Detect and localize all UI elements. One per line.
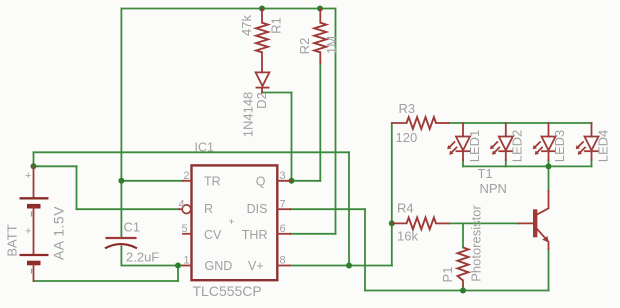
- svg-text:47k: 47k: [239, 15, 254, 36]
- svg-text:THR: THR: [242, 228, 268, 242]
- svg-text:IC1: IC1: [195, 141, 215, 155]
- svg-text:LED2: LED2: [509, 130, 524, 163]
- pin 1 stub GND: [183, 265, 192, 267]
- svg-text:C1: C1: [124, 220, 141, 235]
- pin 3 stub Q: [277, 180, 291, 182]
- wire: reset net to pin 4: [77, 208, 180, 210]
- node: junction battery plus: [31, 163, 37, 169]
- wire: R2 bottom to Q dot: [292, 180, 321, 182]
- wire: collector wire from LED rail: [548, 166, 550, 191]
- LED LED4: [576, 123, 599, 160]
- node: junction Q pin 3: [289, 178, 295, 184]
- svg-text:R1: R1: [268, 17, 283, 34]
- LED LED2: [490, 123, 513, 160]
- svg-text:7: 7: [280, 198, 286, 210]
- pin 4 stub R with bubble: [179, 208, 182, 210]
- LED LED3: [533, 123, 556, 160]
- svg-text:BATT: BATT: [4, 224, 19, 256]
- svg-text:R3: R3: [399, 101, 416, 116]
- wire: V+ riser to R3/R4 column: [391, 123, 393, 266]
- svg-text:LED4: LED4: [595, 130, 610, 163]
- svg-text:LED1: LED1: [467, 130, 482, 163]
- svg-text:TR: TR: [204, 174, 221, 188]
- svg-text:6: 6: [280, 223, 286, 235]
- wire: D2 cathode to Q: [262, 92, 292, 94]
- wire: DIS bottom rail to emitter: [365, 290, 549, 292]
- svg-text:2: 2: [183, 170, 189, 182]
- svg-text:GND: GND: [205, 259, 233, 273]
- wire: V+ pin 8 horizontal: [290, 265, 392, 267]
- svg-text:8: 8: [280, 255, 286, 267]
- pin 6 stub THR: [277, 233, 290, 235]
- node: junction R4 left: [389, 220, 395, 226]
- wire: P1 top lead: [462, 223, 464, 247]
- wire: P1 bottom lead: [462, 286, 464, 291]
- svg-text:1: 1: [183, 255, 189, 267]
- svg-text:AA 1.5V: AA 1.5V: [51, 206, 67, 260]
- wire: LED4 cathode stub: [591, 160, 593, 166]
- resistor R3: [392, 122, 407, 124]
- svg-text:T1: T1: [478, 166, 493, 181]
- svg-text:4: 4: [179, 198, 185, 210]
- wire: C1 to GND pin horizontal: [121, 265, 182, 267]
- resistor R4: [392, 222, 407, 224]
- svg-text:Photoresistor: Photoresistor: [468, 205, 483, 282]
- node: junction R2 top: [317, 6, 323, 12]
- svg-text:LED3: LED3: [552, 130, 567, 163]
- wire: LED cathode rail: [463, 165, 592, 167]
- wire: C1 bottom to GND pin 1: [120, 246, 122, 265]
- wire: LED anode rail: [449, 122, 592, 124]
- node: junction V+ pin 8: [346, 263, 352, 269]
- svg-text:NPN: NPN: [480, 181, 507, 196]
- svg-text:+: +: [229, 217, 235, 228]
- battery BATT: [20, 166, 49, 281]
- svg-text:2.2uF: 2.2uF: [126, 250, 159, 265]
- resistor R1: [261, 9, 263, 23]
- wire: reset net from battery: [34, 165, 77, 167]
- wire: THR pin 6 horizontal: [290, 233, 336, 235]
- transistor T1 NPN: [519, 191, 549, 249]
- photoresistor P1: [458, 248, 469, 281]
- wire: LED3 cathode stub: [548, 160, 550, 166]
- wire: THR vertical to top rail: [335, 9, 337, 234]
- wire: TR pin 2 branch: [121, 180, 183, 182]
- svg-text:+: +: [25, 170, 31, 182]
- svg-text:D2: D2: [254, 92, 269, 109]
- svg-text:V+: V+: [248, 259, 264, 273]
- svg-text:R2: R2: [297, 38, 312, 55]
- pin 5 stub CV: [183, 233, 192, 235]
- wire: LED2 cathode stub: [505, 160, 507, 166]
- pin 2 stub TR: [183, 180, 192, 182]
- svg-text:TLC555CP: TLC555CP: [193, 283, 262, 299]
- pin 7 stub DIS: [277, 208, 290, 210]
- LED LED1: [447, 123, 470, 160]
- svg-text:Q: Q: [256, 174, 266, 188]
- svg-text:DIS: DIS: [247, 202, 268, 216]
- resistor R2: [319, 9, 321, 23]
- node: junction GND pin 1: [175, 263, 181, 269]
- wire: V+ drop at x=349: [348, 152, 350, 265]
- wire: GND junction drop: [177, 266, 179, 282]
- wire: LED1 cathode stub: [462, 160, 464, 166]
- wire: D2 branch vertical to Q dot: [291, 93, 293, 181]
- wire: battery plus riser: [33, 152, 35, 166]
- svg-text:R: R: [204, 202, 213, 216]
- wire: left vertical from top rail down to C1: [120, 9, 122, 239]
- wire: top rail node TR/THR (y=8.5): [121, 8, 335, 10]
- node: junction R1 top: [259, 6, 265, 12]
- wire: reset net vertical: [76, 166, 78, 209]
- wire: DIS vertical drop: [364, 209, 366, 290]
- svg-text:CV: CV: [204, 228, 222, 242]
- svg-text:R4: R4: [397, 201, 414, 216]
- svg-text:1M: 1M: [324, 36, 339, 54]
- wire: bottom rail to battery minus: [34, 280, 179, 282]
- pin 8 stub V+: [277, 265, 290, 267]
- wire: emitter to ground rail: [548, 249, 550, 291]
- svg-text:5: 5: [182, 223, 188, 235]
- diode D2: [256, 72, 270, 92]
- wire: battery plus to V+ horizontal (y=152.3): [34, 151, 350, 153]
- svg-text:120: 120: [396, 130, 418, 145]
- wire: R2 bottom vertical: [319, 63, 321, 181]
- svg-text:16k: 16k: [397, 229, 418, 244]
- svg-text:P1: P1: [440, 267, 455, 283]
- wire: DIS pin 7 horizontal: [290, 208, 365, 210]
- node: junction TR: [118, 178, 124, 184]
- wire: base net from R4: [449, 222, 519, 224]
- svg-text:3: 3: [280, 170, 286, 182]
- capacitor C1: [105, 238, 137, 248]
- node: junction LED3 cathode / collector: [546, 163, 552, 169]
- svg-text:+: +: [25, 226, 31, 238]
- op-amp IC1 box (555 timer): [192, 165, 278, 280]
- node: junction P1 bottom: [460, 288, 466, 294]
